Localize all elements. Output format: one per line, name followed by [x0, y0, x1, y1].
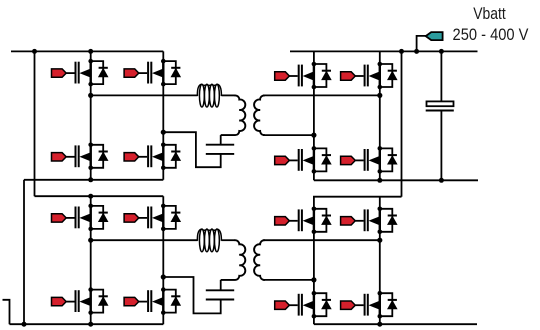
transistor Q16 — [341, 291, 397, 319]
label Vbatt — [453, 5, 525, 24]
capacitor C3 electrolytic top plate — [427, 101, 454, 106]
wire Vbatt tap — [417, 36, 426, 52]
transistor Q1 — [51, 59, 107, 87]
node input+ tie — [32, 49, 37, 54]
wire input- stub — [3, 300, 10, 324]
node leg2 phase — [377, 238, 382, 243]
wire leg1 vertical — [90, 51, 92, 179]
wire top input rail — [11, 50, 163, 52]
node Vbatt tap — [414, 49, 419, 54]
inductor L2 — [197, 229, 221, 252]
wire leg2 vertical — [379, 51, 381, 180]
transistor Q15 — [275, 291, 331, 319]
transistor Q14 — [341, 207, 397, 235]
node leg1 phase — [88, 238, 93, 243]
wire leg2 vertical — [162, 196, 164, 324]
capacitor C3 bottom plate — [426, 110, 454, 112]
wire leg2 vertical — [162, 51, 164, 179]
wire input+ tie vertical x34.5 — [34, 51, 36, 196]
wire parallel tie vertical x401.5 — [401, 51, 403, 196]
node DC cap bottom — [439, 178, 444, 183]
node leg1 source on bottom rail — [88, 322, 93, 327]
wire input- tie vertical x24 — [23, 180, 25, 324]
transformer T1 — [221, 95, 265, 135]
transistor Q8 — [341, 146, 397, 174]
transistor Q9 — [51, 204, 107, 232]
wire phase A to inductor — [91, 94, 198, 96]
inductor L1 — [197, 84, 221, 107]
wire lower-left bridge top rail — [35, 195, 164, 197]
wire leg2 vertical — [379, 197, 381, 325]
node leg1 phase tap — [311, 133, 316, 138]
transistor Q11 — [51, 287, 107, 315]
node leg2 phase B tap — [161, 130, 166, 135]
node leg1 drain on rail — [88, 194, 93, 199]
node leg2 phase — [377, 93, 382, 98]
node tie on top rail — [399, 49, 404, 54]
wire secondary top rail — [290, 50, 478, 52]
transistor Q5 — [275, 62, 331, 90]
node DC cap top — [439, 49, 444, 54]
wire inductor to transformer — [221, 94, 235, 96]
node leg1 phase tap — [311, 277, 316, 282]
wire DC cap bottom stub — [440, 111, 442, 181]
wire DC cap top stub — [440, 51, 442, 101]
wire lower-right bottom rail — [314, 323, 477, 325]
wire leg1 vertical — [313, 209, 315, 324]
wire secondary top lead — [263, 94, 380, 96]
capacitor C2 — [206, 290, 234, 299]
wire upper-left bridge bottom rail — [24, 179, 163, 181]
wire leg1 vertical — [313, 51, 315, 180]
node leg1 phase A — [88, 93, 93, 98]
wire upper-right bottom rail — [314, 179, 478, 181]
node leg2 source on rail — [377, 322, 382, 327]
wire lower-right top rail — [314, 197, 402, 209]
wire secondary bottom lead — [263, 279, 314, 281]
wire lower-left bridge bottom rail — [10, 323, 164, 325]
transistor Q10 — [124, 204, 180, 232]
node leg2 phase tap — [161, 274, 166, 279]
wire inductor to transformer — [221, 239, 235, 241]
transistor Q7 — [275, 146, 331, 174]
transistor Q2 — [124, 59, 180, 87]
transistor Q12 — [124, 287, 180, 315]
capacitor C1 — [206, 145, 234, 154]
node leg1 source on bottom rail — [88, 177, 93, 182]
transformer T2 — [221, 240, 265, 280]
node leg2 source on rail — [377, 178, 382, 183]
transistor Q4 — [124, 143, 180, 171]
transistor Q6 — [341, 62, 397, 90]
node leg1 drain on rail — [88, 49, 93, 54]
label 250 - 400 V — [450, 25, 530, 45]
transistor Q3 — [51, 143, 107, 171]
wire primary bottom lead to capacitor — [220, 135, 222, 145]
wire primary bottom lead to capacitor — [220, 280, 222, 290]
wire leg1 vertical — [90, 196, 92, 324]
wire phase to inductor — [91, 239, 198, 241]
wire C1 bottom to phase B — [163, 132, 220, 167]
wire secondary top lead — [263, 239, 380, 241]
node input- tie — [22, 322, 27, 327]
wire C2 bottom to phase B — [163, 277, 220, 313]
terminal Vbatt arrow — [426, 32, 443, 40]
wire secondary bottom lead — [263, 134, 314, 136]
transistor Q13 — [275, 207, 331, 235]
